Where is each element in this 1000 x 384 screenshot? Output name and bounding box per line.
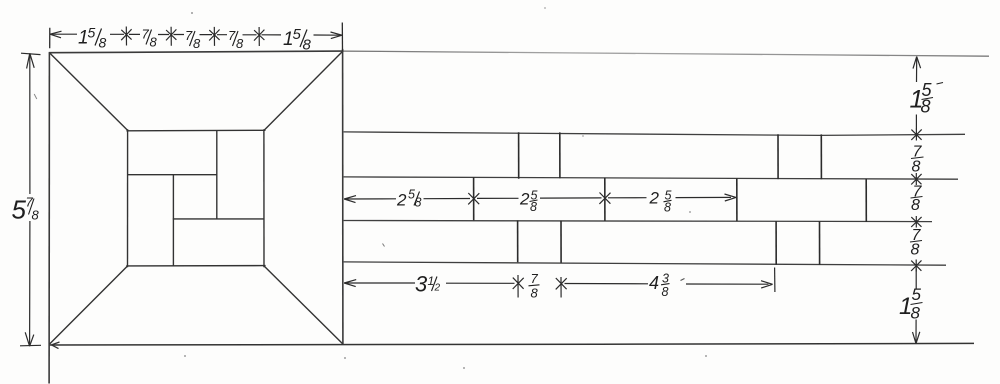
middle strip seam b [604, 178, 606, 221]
middle strip seam d [865, 179, 867, 222]
right label 1 5/8 (bottom) [899, 285, 923, 323]
svg-text:2: 2 [649, 189, 660, 208]
pinwheel horizontal bottom [173, 218, 264, 220]
svg-text:8: 8 [664, 201, 671, 215]
right dimension star tick at L3 [911, 216, 921, 228]
svg-text:8: 8 [530, 200, 537, 214]
top dimension star tick 4 [254, 27, 264, 46]
svg-text:8: 8 [921, 97, 931, 117]
top dimension line segments [50, 34, 341, 35]
svg-text:2: 2 [396, 191, 407, 210]
top dimension right end tick [341, 23, 343, 52]
bottom dimension left arrowhead [344, 280, 356, 287]
band line L3 [344, 221, 932, 222]
right label 7/8 (first) [911, 144, 924, 176]
diagonal bottom-left [50, 266, 128, 345]
inner square top edge [126, 129, 265, 132]
bottom dimension line segments [344, 283, 768, 284]
stray speck bottom 3 [463, 367, 465, 369]
top label 7/8 (second) [185, 28, 201, 51]
diagonal bottom-right [264, 266, 343, 344]
bottom dimension star tick 2 [556, 277, 567, 298]
stray speck mid 2 [689, 211, 691, 213]
bottom dimension star tick 1 [513, 275, 524, 298]
svg-text:8: 8 [99, 35, 107, 51]
svg-text:3: 3 [415, 272, 428, 297]
band line L2 [344, 177, 958, 179]
svg-text:8: 8 [662, 285, 669, 299]
top dimension star tick 2 [166, 27, 176, 46]
stray mark under band [383, 244, 385, 247]
inner square bottom edge [126, 265, 265, 267]
svg-text:8: 8 [193, 36, 201, 51]
right dimension bottom arrowhead [913, 332, 920, 344]
right dimension line segments [915, 58, 918, 344]
inner square left edge [127, 129, 129, 267]
svg-text:8: 8 [531, 286, 539, 301]
pinwheel vertical right [216, 131, 218, 220]
middle dimension right arrowhead [725, 194, 737, 201]
bottom dimension right end tick [774, 268, 776, 293]
bottom label 3 1/2 [415, 272, 441, 297]
svg-text:8: 8 [150, 35, 158, 50]
stray pencil mark left [34, 94, 37, 99]
top dimension left arrowhead [50, 31, 62, 38]
top label 1 5/8 (second) [283, 26, 312, 54]
square right edge [342, 49, 344, 344]
band line L1 [344, 132, 965, 136]
right dimension star tick at L4 [911, 260, 921, 272]
middle dimension left arrowhead [344, 196, 356, 203]
bottom label 4 3/8 [649, 272, 670, 300]
left dimension top arrowhead [27, 53, 35, 68]
pinwheel horizontal top [128, 174, 218, 176]
bottom label 7/8 [529, 271, 540, 301]
bottom dimension right arrowhead [761, 281, 773, 288]
svg-text:5: 5 [293, 26, 302, 43]
middle label 2 5/8 (first) [396, 188, 422, 210]
top label 7/8 (third) [228, 28, 244, 51]
left dimension bottom tick [20, 344, 41, 347]
top label 1 5/8 (first) [78, 25, 107, 51]
stray speck mid 1 [544, 7, 546, 9]
diagonal top-left [50, 54, 128, 131]
stray mark near 4 3/8 [681, 279, 685, 281]
stray speck bottom 1 [184, 355, 186, 357]
right dimension star tick at L2 [911, 173, 921, 185]
stray speck bottom 2 [344, 357, 346, 359]
stray speck bottom 4 [705, 355, 707, 357]
left dimension line 5 7/8 [29, 55, 31, 346]
svg-text:8: 8 [415, 196, 422, 210]
upper strip seam c [777, 134, 779, 179]
middle label 2 5/8 (third) [649, 189, 672, 215]
lower strip seam d [819, 221, 821, 265]
svg-text:8: 8 [911, 304, 921, 323]
top dimension left end tick [49, 28, 51, 48]
right dimension top arrowhead [913, 57, 921, 69]
svg-text:4: 4 [649, 273, 659, 293]
upper strip seam a [518, 132, 520, 179]
upper strip seam d [820, 134, 822, 179]
middle dimension star tick 1 [468, 193, 479, 204]
middle dimension star tick 2 [599, 193, 610, 204]
right label 7/8 (third) [910, 227, 922, 259]
band line L4 [344, 262, 946, 265]
stray speck top [191, 12, 193, 14]
top dimension star tick 3 [209, 27, 219, 46]
top dimension star tick 1 [121, 27, 131, 46]
svg-text:2: 2 [434, 283, 441, 294]
svg-text:7: 7 [531, 271, 539, 286]
square left edge [48, 52, 50, 383]
middle label 2 5/8 (second) [519, 189, 538, 215]
svg-text:5: 5 [88, 25, 96, 41]
diagonal top-right [264, 52, 343, 131]
right dimension star tick at L1 [911, 129, 921, 141]
middle strip seam c [736, 178, 738, 221]
right label 7/8 (second) [911, 184, 923, 215]
svg-text:5: 5 [12, 195, 27, 225]
left dimension bottom arrowhead [25, 332, 34, 346]
bottom edge arrowhead at square corner [52, 342, 60, 349]
upper strip seam b [559, 132, 561, 178]
svg-text:8: 8 [912, 159, 921, 176]
lower strip seam a [517, 220, 519, 262]
svg-text:8: 8 [236, 36, 244, 51]
bottom edge [49, 343, 974, 345]
pinwheel vertical left [172, 174, 174, 266]
top dimension right arrowhead [331, 32, 343, 39]
middle dimension line segments [344, 197, 731, 199]
top label 7/8 (first) [142, 27, 158, 50]
svg-text:5: 5 [912, 285, 922, 304]
right label 1 5/8 (top) [910, 80, 944, 117]
stray speck mid 3 [582, 135, 584, 137]
left label 5 7/8 [12, 195, 40, 225]
lower strip seam b [560, 221, 562, 263]
inner square right edge [263, 129, 265, 267]
svg-text:8: 8 [32, 208, 40, 223]
top edge over square [49, 51, 344, 53]
top edge right band (fading) [344, 51, 990, 56]
svg-text:8: 8 [303, 37, 312, 54]
lower strip seam c [775, 221, 777, 265]
middle strip seam a [473, 177, 475, 220]
svg-text:8: 8 [911, 242, 920, 259]
svg-text:8: 8 [911, 197, 920, 214]
svg-text:2: 2 [519, 190, 530, 209]
left dimension top tick [21, 53, 41, 54]
